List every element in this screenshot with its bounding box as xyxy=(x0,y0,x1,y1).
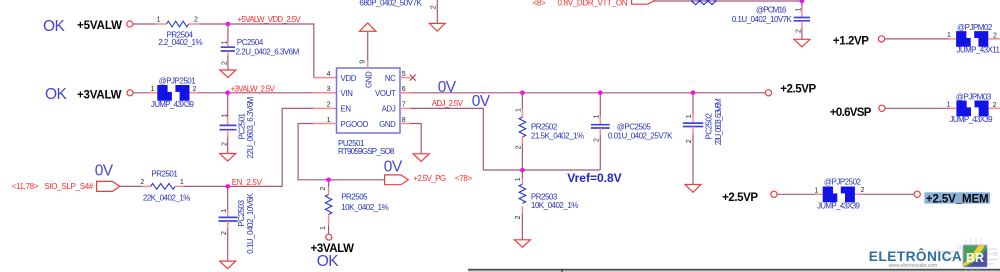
wire GND pin8 to ground xyxy=(410,124,421,154)
svg-text:RT9059GSP_SO8: RT9059GSP_SO8 xyxy=(338,147,395,156)
op-amp U1 / regulator PU2501 body xyxy=(327,60,406,156)
pin 1 stub PJP2502 xyxy=(817,193,823,195)
wire +2.5VP (VOUT) xyxy=(410,92,765,94)
svg-text:GND: GND xyxy=(379,120,396,129)
wire +0.6VSP to jumper xyxy=(885,107,950,109)
svg-text:3: 3 xyxy=(327,86,331,93)
svg-text:NC: NC xyxy=(385,74,396,83)
wire VTT net xyxy=(655,0,802,2)
svg-text:www.eletronicabr.com: www.eletronicabr.com xyxy=(889,263,938,269)
resistor PR2503 xyxy=(515,170,578,240)
svg-text:+2.5V_PG: +2.5V_PG xyxy=(413,174,446,183)
junction +5VALW_VDD node xyxy=(226,22,231,27)
svg-text:GND: GND xyxy=(364,71,373,88)
svg-text:6: 6 xyxy=(402,86,406,93)
node +3VALW open circle (bottom) xyxy=(326,234,332,240)
svg-text:@PJP2502: @PJP2502 xyxy=(824,177,862,186)
svg-text:@PJPM03: @PJPM03 xyxy=(956,93,992,102)
svg-text:1: 1 xyxy=(594,114,601,118)
svg-text:1: 1 xyxy=(221,209,228,213)
svg-text:1: 1 xyxy=(947,32,951,39)
pin 2 stub PJPM03 xyxy=(989,107,1000,109)
svg-text:0.1U_0402_10V6K: 0.1U_0402_10V6K xyxy=(246,192,255,253)
ground pin8 xyxy=(413,154,429,162)
ground PC2504 xyxy=(220,70,236,77)
svg-text:2: 2 xyxy=(320,187,327,191)
svg-text:2: 2 xyxy=(515,215,522,219)
svg-text:+2.5VP: +2.5VP xyxy=(722,192,758,204)
svg-text:@PJPM02: @PJPM02 xyxy=(957,23,993,32)
svg-text:2: 2 xyxy=(979,38,983,45)
svg-text:2: 2 xyxy=(795,29,802,33)
pin 2 stub PJPM02 xyxy=(988,38,1000,40)
pin 4 stub VDD xyxy=(313,77,336,79)
ground PC2501 xyxy=(220,154,236,162)
svg-text:JUMP_43X39: JUMP_43X39 xyxy=(950,115,994,124)
svg-text:JUMP_43X39: JUMP_43X39 xyxy=(151,100,195,109)
svg-text:22K_0402_1%: 22K_0402_1% xyxy=(143,193,190,202)
wire EN_2.5V net xyxy=(183,108,313,186)
pin 1 stub PJPM02 xyxy=(950,38,956,40)
node +2.5VP open circle (bottom) xyxy=(771,191,777,197)
junction PC2505 top xyxy=(598,91,603,96)
svg-text:2: 2 xyxy=(140,179,144,186)
pin 2 stub PJP2502 xyxy=(855,193,862,195)
node +5VALW open circle xyxy=(127,21,133,27)
pin 1 stub PGOOD xyxy=(313,123,336,125)
svg-text:BR: BR xyxy=(966,251,984,265)
svg-text:<78>: <78> xyxy=(455,174,473,183)
svg-text:JUMP_43X39: JUMP_43X39 xyxy=(817,202,861,211)
svg-text:2: 2 xyxy=(193,86,197,93)
svg-text:1: 1 xyxy=(515,177,522,181)
wire +3VALW to jumper xyxy=(133,92,149,94)
junction +3VALW_2.5V node xyxy=(225,91,230,96)
wire VDD net to IC xyxy=(200,24,314,78)
pin 1 stub PJP2501 xyxy=(150,92,158,94)
jumper PJPM03 xyxy=(947,93,997,125)
wire +2.5VP to jumper xyxy=(777,193,816,195)
resistor PR2501 xyxy=(140,169,190,202)
net name +2.5V_MEM (highlighted) xyxy=(924,192,990,205)
watermark EletronicaBR logo xyxy=(869,238,998,272)
svg-text:22U_0603_6.3V6M: 22U_0603_6.3V6M xyxy=(246,96,255,158)
svg-text:PR2501: PR2501 xyxy=(151,169,178,178)
resistor PR2505 xyxy=(320,180,388,235)
wire jumper to +2.5V_MEM xyxy=(862,193,914,195)
svg-text:1: 1 xyxy=(961,38,965,45)
svg-text:1: 1 xyxy=(320,226,327,230)
junction PC2502 top xyxy=(691,91,696,96)
svg-text:10K_0402_1%: 10K_0402_1% xyxy=(531,201,578,210)
svg-text:0V: 0V xyxy=(438,79,457,96)
pin 2 stub PJP2501 xyxy=(190,92,198,94)
ground PC2503 xyxy=(220,261,236,269)
ground PCM16 xyxy=(794,39,810,47)
svg-text:PGOOD: PGOOD xyxy=(341,120,369,129)
wire ADJ_2.5V net xyxy=(410,108,600,170)
node +2.5VP open circle xyxy=(765,90,771,96)
svg-text:2: 2 xyxy=(327,102,331,109)
svg-text:<8>: <8> xyxy=(533,0,547,7)
svg-text:1: 1 xyxy=(795,8,802,12)
junction Vref node xyxy=(520,168,525,173)
svg-text:1: 1 xyxy=(157,16,161,23)
svg-text:EN: EN xyxy=(341,105,351,114)
svg-text:PC2503: PC2503 xyxy=(237,200,246,227)
svg-text:PC2502: PC2502 xyxy=(705,113,714,140)
svg-text:0.01U_0402_25V7K: 0.01U_0402_25V7K xyxy=(608,132,673,141)
node +2.5V_MEM open circle xyxy=(914,191,920,197)
node +1.2VP open circle xyxy=(878,36,884,42)
svg-text:0V: 0V xyxy=(384,158,403,175)
svg-text:+0.6VSP: +0.6VSP xyxy=(830,107,872,119)
pin 2 stub EN xyxy=(313,107,336,109)
svg-text:+2.5V_MEM: +2.5V_MEM xyxy=(926,193,989,205)
resistor PR2502 xyxy=(516,93,584,170)
node +3VALW open circle xyxy=(127,90,133,96)
capacitor PC2505 xyxy=(591,93,673,170)
pin 7 stub ADJ xyxy=(400,107,410,109)
svg-text:22U_0603_6.3V6M: 22U_0603_6.3V6M xyxy=(714,98,723,145)
svg-text:2: 2 xyxy=(516,145,523,149)
svg-text:0V: 0V xyxy=(472,93,491,110)
wire +1.2VP to jumper xyxy=(885,38,950,40)
svg-text:OK: OK xyxy=(317,253,339,270)
svg-text:2: 2 xyxy=(222,61,229,65)
pin 9 stub GND top xyxy=(367,60,369,68)
node +0.6VSP open circle xyxy=(879,105,885,111)
svg-text:+5VALW: +5VALW xyxy=(77,20,122,32)
svg-text:VIN: VIN xyxy=(341,89,353,98)
pin 2 stub PR2504 xyxy=(189,23,200,25)
svg-text:+5VALW_VDD_2.5V: +5VALW_VDD_2.5V xyxy=(237,15,301,24)
pin 1 stub PR2504 xyxy=(156,23,167,25)
pin 8 stub GND xyxy=(400,123,410,125)
wire pin9 to power arrow xyxy=(367,31,369,60)
svg-text:1: 1 xyxy=(221,114,228,118)
power arrow +5VALW_VDD_2.5V xyxy=(360,23,376,31)
junction PR2505 top xyxy=(326,178,331,183)
svg-text:+1.2VP: +1.2VP xyxy=(833,36,869,48)
svg-text:0.8V_DDR_VTT_ON: 0.8V_DDR_VTT_ON xyxy=(558,0,628,7)
svg-text:2.2_0402_1%: 2.2_0402_1% xyxy=(158,38,202,47)
inductor/bead diamonds xyxy=(692,0,717,5)
svg-text:+3VALW: +3VALW xyxy=(77,90,122,102)
svg-text:@PCM16: @PCM16 xyxy=(756,6,787,15)
svg-text:JUMP_43X11: JUMP_43X11 xyxy=(957,46,1000,55)
svg-text:2: 2 xyxy=(861,187,865,194)
ground PC2502 xyxy=(685,185,701,193)
svg-text:2: 2 xyxy=(221,231,228,235)
ground PR2503 xyxy=(514,240,530,247)
jumper PJPM02 xyxy=(947,23,1000,54)
wire SIO to PR2501 xyxy=(120,185,143,187)
svg-text:<11,78>: <11,78> xyxy=(12,182,39,191)
wire PGOOD net xyxy=(298,124,385,180)
capacitor PC2501 xyxy=(220,93,256,159)
svg-text:PC2504: PC2504 xyxy=(237,38,264,47)
svg-text:+3VALW_2.5V: +3VALW_2.5V xyxy=(231,84,276,93)
svg-text:PR2505: PR2505 xyxy=(341,192,368,201)
wire +5VALW to R xyxy=(133,23,156,25)
svg-text:10K_0402_1%: 10K_0402_1% xyxy=(341,203,388,212)
resistor PR2504 xyxy=(157,16,203,47)
svg-text:SIO_SLP_S4#: SIO_SLP_S4# xyxy=(44,182,94,191)
svg-text:0.1U_0402_10V7K: 0.1U_0402_10V7K xyxy=(732,15,793,24)
wire 680P pin2 to ground xyxy=(436,0,438,23)
svg-text:PC2501: PC2501 xyxy=(237,112,246,139)
svg-text:OK: OK xyxy=(45,86,67,103)
port +2.5V_PG xyxy=(385,175,409,185)
svg-text:1: 1 xyxy=(222,41,229,45)
svg-text:ADJ_2.5V: ADJ_2.5V xyxy=(432,99,464,108)
pin 5 stub NC xyxy=(400,77,410,79)
svg-text:ADJ: ADJ xyxy=(382,105,396,114)
svg-text:@PJP2501: @PJP2501 xyxy=(159,76,197,85)
junction PCM16 node xyxy=(800,0,805,3)
no-connect X mark xyxy=(410,75,416,81)
junction EN node xyxy=(225,184,230,189)
svg-text:2: 2 xyxy=(594,138,601,142)
svg-text:2: 2 xyxy=(194,16,198,23)
svg-text:680P_0402_50V7K: 680P_0402_50V7K xyxy=(359,0,422,8)
wire +3VALW_2.5V to VIN xyxy=(198,92,314,94)
svg-text:2: 2 xyxy=(686,139,693,143)
pin 2 stub PR2501 xyxy=(143,185,151,187)
svg-text:PR2502: PR2502 xyxy=(531,122,558,131)
ground 680P xyxy=(429,23,445,31)
pin 6 stub VOUT xyxy=(400,92,410,94)
capacitor PC2503 xyxy=(219,186,255,261)
svg-text:2.2U_0402_6.3V6M: 2.2U_0402_6.3V6M xyxy=(236,47,300,56)
pin 3 stub VIN xyxy=(313,92,336,94)
svg-text:4: 4 xyxy=(327,71,331,78)
svg-text:1: 1 xyxy=(947,102,951,109)
svg-text:1: 1 xyxy=(814,188,818,195)
jumper PJP2502 xyxy=(814,177,864,210)
svg-text:Vref=0.8V: Vref=0.8V xyxy=(567,171,621,185)
svg-text:EN_2.5V: EN_2.5V xyxy=(232,178,263,187)
svg-text:VOUT: VOUT xyxy=(375,89,396,98)
capacitor PCM16 xyxy=(732,1,810,39)
svg-text:1: 1 xyxy=(686,114,693,118)
capacitor PC2504 xyxy=(221,24,300,70)
svg-text:2: 2 xyxy=(431,5,438,9)
junction PR2502 top xyxy=(520,91,525,96)
svg-text:VDD: VDD xyxy=(341,74,357,83)
svg-text:2: 2 xyxy=(221,142,228,146)
svg-text:21.5K_0402_1%: 21.5K_0402_1% xyxy=(531,132,584,141)
pin 1 stub PR2501 xyxy=(175,185,183,187)
svg-text:0V: 0V xyxy=(95,162,114,179)
port 0.8V_DDR_VTT_ON xyxy=(632,0,655,4)
pin 1 stub PJPM03 xyxy=(950,107,956,109)
svg-text:OK: OK xyxy=(43,18,65,35)
svg-text:7: 7 xyxy=(402,102,406,109)
port SIO_SLP_S4# xyxy=(97,181,120,191)
svg-text:+2.5VP: +2.5VP xyxy=(780,83,816,95)
jumper PJP2501 xyxy=(151,76,197,108)
svg-text:@PC2505: @PC2505 xyxy=(617,122,652,131)
title block border bar xyxy=(468,269,1000,272)
capacitor PC2502 xyxy=(683,93,723,185)
svg-text:1: 1 xyxy=(180,179,184,186)
svg-text:1: 1 xyxy=(151,86,155,93)
svg-text:9: 9 xyxy=(359,60,366,64)
svg-text:1: 1 xyxy=(516,108,523,112)
